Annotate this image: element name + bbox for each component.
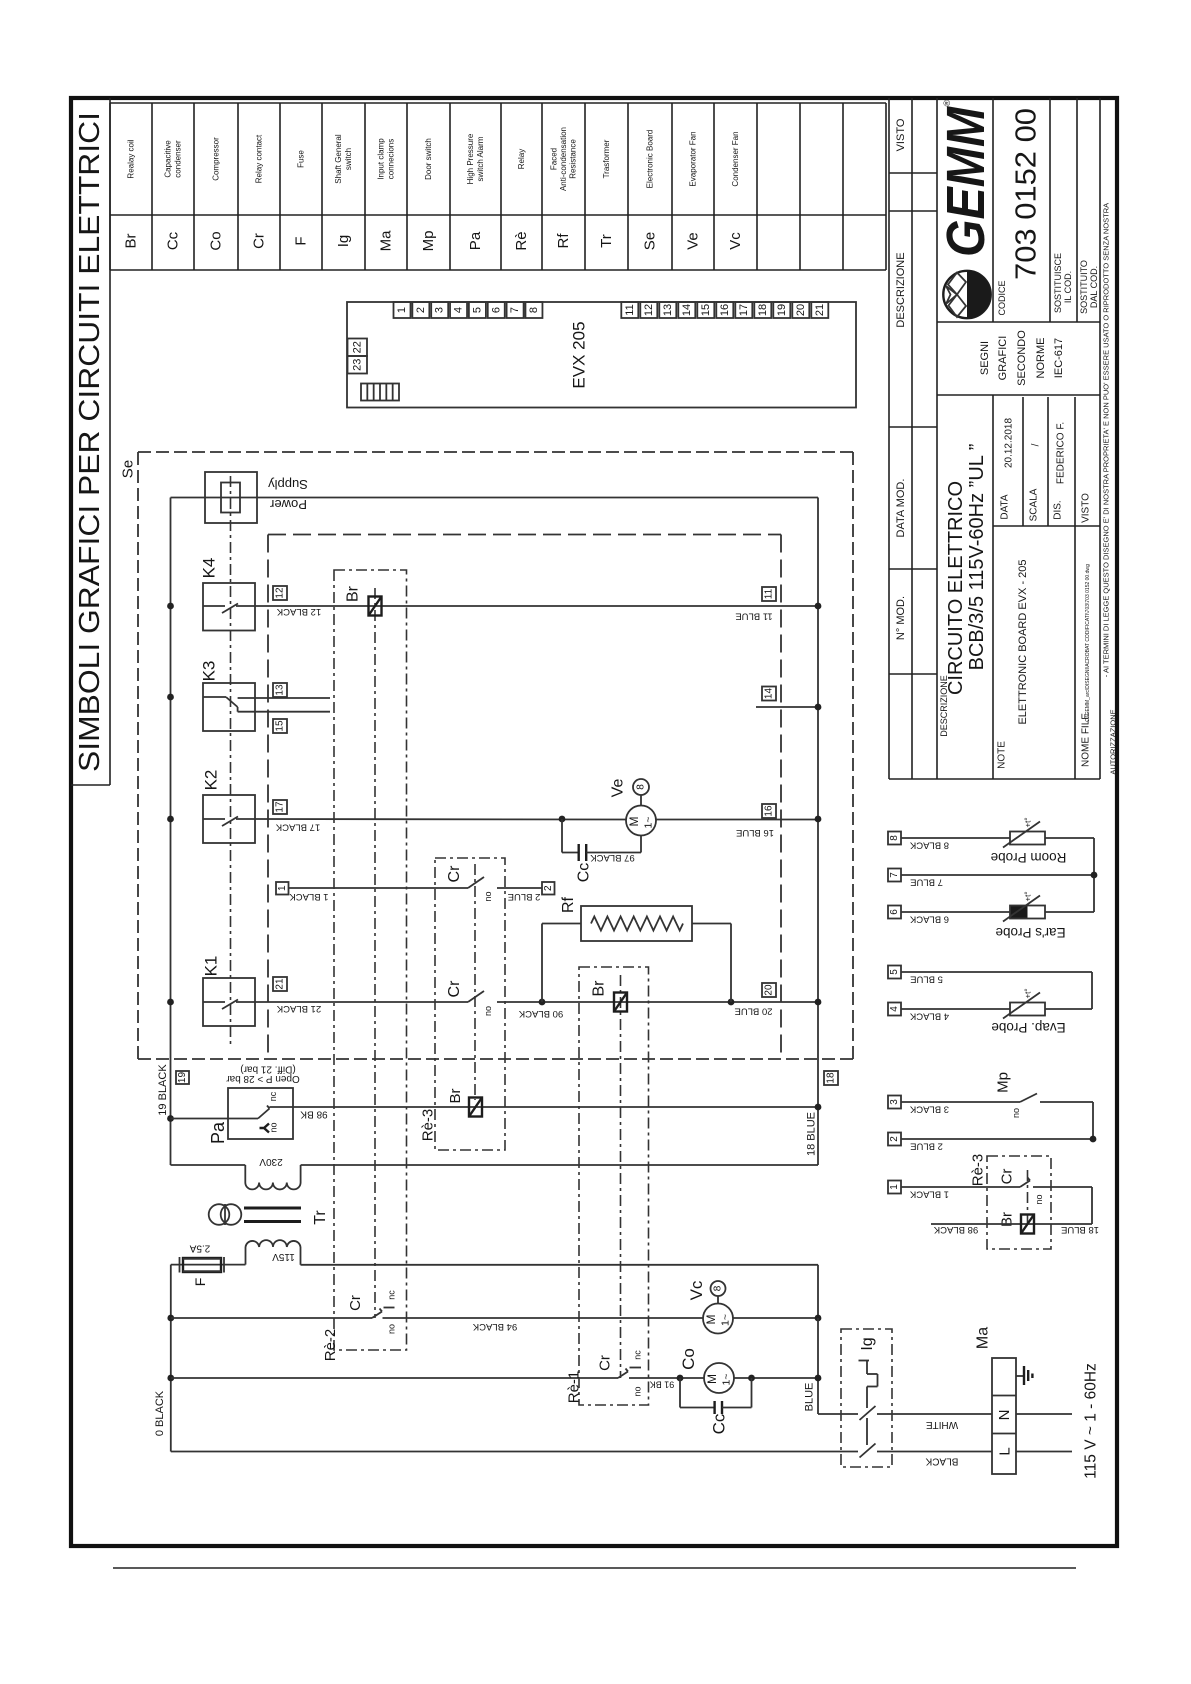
- pressure switch Pa: [171, 1064, 300, 1145]
- svg-text:14: 14: [764, 688, 775, 700]
- svg-text:Vc: Vc: [727, 232, 744, 250]
- legend entry Br: [123, 139, 140, 248]
- svg-text:18: 18: [757, 304, 769, 316]
- svg-text:16 BLUE: 16 BLUE: [736, 827, 774, 838]
- junction: [728, 999, 735, 1006]
- svg-text:Pa: Pa: [208, 1121, 228, 1144]
- svg-text:Mp: Mp: [995, 1072, 1012, 1093]
- relay contact Cr (on 90 BLACK line): [446, 980, 493, 1016]
- svg-text:Ve: Ve: [610, 779, 627, 798]
- svg-text:Compressor: Compressor: [212, 137, 221, 181]
- svg-text:no: no: [633, 1386, 643, 1396]
- junction: [815, 704, 822, 711]
- wire to pin 15: [238, 711, 330, 713]
- legend entry Tr: [598, 139, 615, 248]
- svg-text:13: 13: [275, 684, 286, 696]
- svg-text:BLUE: BLUE: [804, 1383, 816, 1412]
- thermistor Room Probe: [991, 817, 1094, 912]
- thermistor Ear's Probe: [995, 891, 1094, 940]
- svg-text:condenser: condenser: [173, 140, 182, 178]
- svg-text:connecions: connecions: [386, 139, 395, 179]
- pin 1: [888, 1181, 901, 1194]
- electronic board Se EVX 205: [347, 302, 856, 408]
- svg-text:3 BLACK: 3 BLACK: [909, 1104, 949, 1115]
- svg-text:nc: nc: [387, 1290, 397, 1300]
- wire Vc to bus: [733, 1317, 818, 1319]
- wire BLACK (L): [171, 1452, 992, 1467]
- wire 19 BLACK label: [157, 1064, 169, 1116]
- svg-text:Se: Se: [120, 460, 137, 478]
- svg-text:no: no: [1034, 1194, 1044, 1204]
- svg-text:2: 2: [889, 1136, 900, 1142]
- relay contact K3: [200, 661, 256, 731]
- border frame: [71, 98, 1117, 1546]
- svg-text:Cr: Cr: [347, 1295, 364, 1311]
- resistor Rf (anti-condensation): [542, 896, 731, 1002]
- svg-text:SOSTITUITO: SOSTITUITO: [1079, 260, 1089, 314]
- wire N out: [1016, 1413, 1072, 1415]
- svg-text:/: /: [1031, 443, 1042, 446]
- pin 13: [273, 683, 287, 697]
- svg-text:8: 8: [713, 1285, 724, 1291]
- svg-text:115 V ~ 1 - 60Hz: 115 V ~ 1 - 60Hz: [1083, 1363, 1100, 1479]
- link line Re-3 right: [1027, 1170, 1029, 1224]
- svg-text:Co: Co: [208, 231, 225, 250]
- wire Co to bus: [734, 1377, 818, 1379]
- svg-text:15: 15: [275, 720, 286, 732]
- legend entry Cr: [251, 134, 268, 249]
- wire 91 BK: [629, 1378, 704, 1390]
- wire 11 BLUE label: [735, 611, 772, 622]
- svg-text:1: 1: [889, 1184, 900, 1190]
- svg-text:Electronic Board: Electronic Board: [646, 130, 655, 189]
- pin 18: [824, 1071, 838, 1085]
- svg-text:15: 15: [700, 304, 712, 316]
- svg-text:5 BLUE: 5 BLUE: [910, 974, 943, 985]
- junction: [167, 1375, 174, 1382]
- relay contact Cr (Re-2, condenser fan): [171, 1290, 397, 1334]
- svg-text:91 BK: 91 BK: [650, 1380, 675, 1390]
- svg-text:N: N: [996, 1410, 1013, 1421]
- svg-text:Evaporator Fan: Evaporator Fan: [689, 131, 698, 186]
- junction: [815, 1315, 822, 1322]
- coil link dash line: [230, 476, 232, 1045]
- svg-text:Relay: Relay: [517, 149, 526, 169]
- legend entry F: [293, 150, 310, 246]
- svg-text:12 BLACK: 12 BLACK: [276, 606, 321, 617]
- svg-text:703 0152 00: 703 0152 00: [1011, 108, 1043, 280]
- svg-text:L: L: [997, 1447, 1014, 1455]
- svg-text:1~: 1~: [721, 1374, 733, 1386]
- wire 230V primary feed: [171, 1156, 283, 1183]
- svg-text:IEC-617: IEC-617: [1053, 338, 1065, 378]
- board pin 15: [697, 302, 714, 318]
- svg-text:Faced: Faced: [549, 148, 558, 170]
- logo GEMM: [936, 99, 996, 257]
- svg-text:16: 16: [764, 805, 775, 817]
- svg-text:- AI TERMINI DI LEGGE QUE: - AI TERMINI DI LEGGE QUESTO DISEGNO E' …: [1102, 203, 1111, 677]
- svg-text:EVX 205: EVX 205: [570, 321, 589, 388]
- svg-text:19 BLACK: 19 BLACK: [157, 1064, 169, 1116]
- svg-text:NOTE: NOTE: [997, 741, 1008, 769]
- svg-text:Mp: Mp: [420, 231, 437, 252]
- pin 21: [273, 977, 287, 991]
- svg-text:SIMBOLI GRAFICI PER CIRCUITI: SIMBOLI GRAFICI PER CIRCUITI ELETTRICI: [74, 112, 106, 772]
- svg-text:Br: Br: [447, 1088, 464, 1103]
- board pin 8: [525, 302, 542, 318]
- svg-text:Realay coil: Realay coil: [127, 139, 136, 178]
- wire 18 BLUE label: [806, 1112, 818, 1156]
- svg-text:Br: Br: [591, 980, 608, 997]
- svg-text:CIRCUITO ELETTRICO: CIRCUITO ELETTRICO: [945, 481, 967, 695]
- svg-text:Door switch: Door switch: [424, 138, 433, 180]
- node Re-2 label: [322, 1329, 339, 1362]
- svg-text:FEDERICO F.: FEDERICO F.: [1056, 422, 1067, 484]
- board pin 5: [469, 302, 486, 318]
- svg-text:20.12.2018: 20.12.2018: [1004, 418, 1015, 468]
- svg-text:Cr: Cr: [597, 1355, 614, 1371]
- svg-text:WHITE: WHITE: [926, 1419, 959, 1430]
- board pin 12: [640, 302, 657, 318]
- pin 19: [176, 1071, 189, 1084]
- junction: [815, 603, 822, 610]
- svg-text:1 BLACK: 1 BLACK: [909, 1189, 949, 1200]
- door switch Mp: [995, 1072, 1094, 1139]
- legal text: [1102, 203, 1118, 775]
- relay Br / Re-1 boundary: [579, 967, 649, 1405]
- svg-text:Rè-3: Rè-3: [420, 1109, 437, 1142]
- wire 2 BLUE: [497, 888, 542, 902]
- svg-text:switch Alarm: switch Alarm: [476, 136, 485, 181]
- svg-text:97 BLACK: 97 BLACK: [590, 852, 635, 863]
- svg-text:7: 7: [509, 307, 521, 313]
- legend entry Co: [208, 137, 225, 251]
- wire secondary to right bus: [301, 1247, 819, 1318]
- wire 3 BLACK: [901, 1102, 1020, 1115]
- svg-text:no: no: [483, 891, 493, 901]
- svg-text:Shaft General: Shaft General: [334, 134, 343, 184]
- svg-text:GEMM: GEMM: [936, 106, 996, 257]
- svg-text:Fuse: Fuse: [297, 150, 306, 168]
- legend entry Ma: [377, 138, 396, 252]
- svg-text:7: 7: [889, 872, 900, 878]
- note: [997, 559, 1030, 768]
- junction: [559, 816, 566, 823]
- junction: [1090, 1136, 1097, 1143]
- pin 6: [888, 906, 901, 919]
- legend entry Ig: [334, 134, 353, 247]
- svg-text:SCALA: SCALA: [1029, 488, 1040, 521]
- relay contact K2: [202, 770, 256, 843]
- svg-text:21 BLACK: 21 BLACK: [276, 1003, 321, 1014]
- board pin 11: [621, 302, 638, 318]
- svg-text:M: M: [627, 817, 641, 827]
- svg-text:SECONDO: SECONDO: [1016, 330, 1028, 386]
- board pin 13: [659, 302, 676, 318]
- svg-text:20 BLUE: 20 BLUE: [734, 1006, 772, 1017]
- svg-text:6 BLACK: 6 BLACK: [909, 914, 949, 925]
- svg-text:F: F: [293, 236, 310, 245]
- wire left bus lower: [170, 1265, 172, 1452]
- svg-text:3: 3: [434, 307, 446, 313]
- svg-text:DAL COD.: DAL COD.: [1089, 266, 1099, 308]
- svg-text:no: no: [269, 1122, 279, 1132]
- svg-text:2: 2: [415, 307, 427, 313]
- transformer Tr: [209, 1183, 329, 1263]
- wire supply top: [171, 498, 819, 1166]
- sheet title SIMBOLI GRAFICI PER CIRCUITI ELETTRICI: [71, 98, 110, 785]
- title block grid: [937, 98, 1100, 779]
- pin 2: [888, 1133, 901, 1146]
- svg-text:Cc: Cc: [576, 863, 593, 883]
- svg-text:no: no: [387, 1324, 397, 1334]
- legend entry Pa: [466, 133, 485, 250]
- svg-text:(Diff. 21 bar): (Diff. 21 bar): [240, 1064, 295, 1075]
- relay Re-3 boundary (Cr contacts): [435, 858, 505, 1150]
- board pin 18: [754, 302, 771, 318]
- pin 15: [273, 719, 287, 733]
- capacitor Cc (evaporator fan): [562, 819, 641, 882]
- svg-text:Resistance: Resistance: [569, 139, 578, 179]
- svg-text:nc: nc: [268, 1091, 278, 1101]
- svg-text:18: 18: [826, 1072, 837, 1084]
- relay coil Br (K4 line): [345, 585, 382, 615]
- junction: [815, 1104, 822, 1111]
- svg-text:Ig: Ig: [335, 235, 352, 248]
- svg-text:Rè: Rè: [513, 231, 530, 250]
- pin 7: [888, 869, 901, 882]
- link line Br coil to Re-2 contact: [374, 588, 376, 1318]
- wire 5 BLUE: [901, 972, 1092, 1009]
- board pin 4: [450, 302, 467, 318]
- footer rule: [113, 1567, 1076, 1569]
- motor Vc condenser fan: [687, 1280, 733, 1333]
- board pin 21: [811, 302, 828, 318]
- capacitor Cc (compressor): [680, 1378, 752, 1434]
- svg-text:Power: Power: [269, 497, 307, 512]
- svg-text:GRAFICI: GRAFICI: [997, 336, 1009, 381]
- junction: [815, 1375, 822, 1382]
- relay Br / Re-2 boundary: [334, 570, 407, 1350]
- svg-text:20: 20: [795, 304, 807, 316]
- wire 6 BLACK: [901, 912, 1010, 925]
- svg-text:22: 22: [351, 341, 363, 353]
- svg-text:12: 12: [275, 587, 286, 599]
- general switch Ig: [841, 1329, 892, 1467]
- svg-text:Room Probe: Room Probe: [991, 850, 1067, 865]
- svg-text:ELETTRONIC BOARD EVX - 205: ELETTRONIC BOARD EVX - 205: [1017, 559, 1029, 724]
- svg-text:Vc: Vc: [687, 1280, 706, 1300]
- board pin 3: [431, 302, 448, 318]
- wire WHITE (N): [818, 1414, 992, 1430]
- board connector: [361, 384, 399, 401]
- board pin 16: [716, 302, 733, 318]
- svg-text:Rè-3: Rè-3: [970, 1154, 987, 1187]
- svg-text:14: 14: [681, 304, 693, 316]
- svg-text:Ig: Ig: [859, 1337, 876, 1350]
- legend entry Cc: [164, 140, 183, 250]
- codice 703 0152 00: [997, 108, 1043, 316]
- svg-text:90 BLACK: 90 BLACK: [518, 1008, 563, 1019]
- wire 17 BLACK: [255, 819, 626, 833]
- motor Ve evaporator fan: [610, 779, 657, 836]
- svg-text:®: ®: [942, 99, 952, 106]
- junction: [167, 603, 174, 610]
- relay coil Br (90 BLACK line): [591, 980, 628, 1012]
- junction: [677, 1375, 684, 1382]
- junction: [167, 1315, 174, 1322]
- pin 14: [762, 687, 776, 701]
- board pin 14: [678, 302, 695, 318]
- motor Co compressor: [679, 1348, 734, 1393]
- svg-text:1~: 1~: [643, 817, 655, 829]
- svg-text:12: 12: [643, 304, 655, 316]
- svg-text:18 BLUE: 18 BLUE: [1061, 1224, 1099, 1235]
- svg-text:4: 4: [453, 307, 465, 313]
- svg-text:Evap. Probe: Evap. Probe: [991, 1020, 1065, 1035]
- junction: [815, 999, 822, 1006]
- relay contact Cr (Re-1, compressor): [171, 1350, 643, 1397]
- svg-text:Co: Co: [679, 1348, 698, 1370]
- svg-text:2: 2: [543, 885, 554, 891]
- legend entry Rè: [513, 149, 530, 251]
- wire 21 BLACK: [255, 1002, 468, 1014]
- relay contact Cr (door relay, Re-3 group): [446, 865, 493, 902]
- svg-text:4: 4: [889, 1006, 900, 1012]
- svg-text:no: no: [1011, 1108, 1021, 1118]
- svg-text:1 BLACK: 1 BLACK: [289, 891, 329, 902]
- sostituito: [1079, 260, 1099, 314]
- wire 7 BLUE: [901, 875, 1094, 888]
- svg-text:Anti-condensation: Anti-condensation: [559, 127, 568, 191]
- svg-text:N° MOD.: N° MOD.: [895, 596, 907, 640]
- svg-text:Capacitive: Capacitive: [164, 140, 173, 178]
- svg-text:1~: 1~: [720, 1314, 732, 1326]
- junction: [1091, 872, 1098, 879]
- svg-text:Supply: Supply: [268, 477, 308, 492]
- svg-text:13: 13: [662, 304, 674, 316]
- pin 17: [273, 800, 287, 814]
- board pin 23: [348, 356, 368, 374]
- junction: [167, 816, 174, 823]
- svg-text:19: 19: [776, 304, 788, 316]
- junction: [167, 694, 174, 701]
- svg-text:Rf: Rf: [560, 896, 577, 913]
- svg-text:Rè-2: Rè-2: [322, 1329, 339, 1362]
- svg-text:IL COD.: IL COD.: [1063, 271, 1073, 303]
- wire 16 BLUE: [656, 820, 818, 839]
- node Re-3 label: [420, 1109, 437, 1142]
- pin 12: [273, 586, 287, 600]
- relay contact K1: [202, 956, 256, 1026]
- svg-text:Tr: Tr: [598, 234, 615, 248]
- svg-text:Br: Br: [345, 585, 362, 602]
- logo sphere: [943, 271, 990, 318]
- svg-text:nc: nc: [633, 1350, 643, 1360]
- supply label 115V 60Hz: [1083, 1363, 1100, 1479]
- wire 1 BLACK: [289, 888, 469, 902]
- wire 20 BLUE label: [734, 1006, 772, 1017]
- svg-text:Br: Br: [123, 233, 140, 248]
- svg-text:20: 20: [764, 984, 775, 996]
- svg-text:BCB/3/5 115V-60Hz ”UL ”: BCB/3/5 115V-60Hz ”UL ”: [966, 444, 988, 671]
- svg-text:94 BLACK: 94 BLACK: [472, 1321, 517, 1332]
- board pin 19: [773, 302, 790, 318]
- fuse F 2.5A: [171, 1243, 246, 1287]
- svg-text:NORME: NORME: [1035, 338, 1047, 379]
- svg-text:6: 6: [490, 307, 502, 313]
- wire primary to bus: [301, 1165, 818, 1183]
- wire 2 BLUE (right): [901, 1139, 1093, 1152]
- svg-text:K4: K4: [200, 558, 219, 579]
- board pin 1: [394, 302, 411, 318]
- ground: [1016, 1366, 1032, 1385]
- svg-text:DIS.: DIS.: [1053, 500, 1064, 519]
- svg-text:Pa: Pa: [467, 231, 484, 250]
- wire 12 BLACK: [255, 606, 818, 617]
- svg-text:AUTORIZZAZIONE: AUTORIZZAZIONE: [1109, 709, 1118, 774]
- svg-text:11: 11: [624, 304, 636, 315]
- svg-text:8: 8: [889, 835, 900, 841]
- wire BLUE label: [804, 1383, 816, 1412]
- svg-text:Ma: Ma: [975, 1327, 992, 1349]
- svg-text:M: M: [704, 1315, 718, 1325]
- svg-text:+t°: +t°: [1024, 817, 1033, 827]
- svg-text:Cr: Cr: [446, 980, 463, 998]
- svg-text:Relay contact: Relay contact: [255, 134, 264, 183]
- relay contact Cr (Re-3 right): [999, 1169, 1093, 1224]
- relay coil Br (Re-3, on 98 BK line): [447, 1088, 482, 1116]
- svg-text:DATA MOD.: DATA MOD.: [895, 479, 907, 538]
- descrizione title: [939, 444, 988, 737]
- svg-text:K2: K2: [202, 770, 221, 791]
- board boundary Se (dash region): [138, 452, 853, 1059]
- svg-text:Rf: Rf: [555, 233, 572, 249]
- svg-text:Input clamp: Input clamp: [377, 138, 386, 180]
- svg-text:VISTO: VISTO: [1081, 493, 1092, 523]
- thermistor Evap. Probe: [991, 988, 1092, 1035]
- svg-text:switch: switch: [344, 148, 353, 170]
- svg-text:High Pressure: High Pressure: [466, 133, 475, 184]
- board pin 2: [412, 302, 429, 318]
- svg-text:4 BLACK: 4 BLACK: [909, 1011, 949, 1022]
- wire 94 BLACK: [383, 1318, 704, 1332]
- relay Re-3 boundary (right): [970, 1154, 1052, 1249]
- nome file: [1081, 564, 1092, 767]
- svg-text:Ve: Ve: [685, 232, 702, 250]
- wire 8 BLACK: [901, 838, 1010, 851]
- pin 11: [762, 587, 776, 601]
- svg-text:5: 5: [889, 969, 900, 975]
- svg-text:Cr: Cr: [446, 865, 463, 883]
- board pin 20: [792, 302, 809, 318]
- wire to pin 13: [238, 697, 330, 699]
- svg-text:16: 16: [719, 304, 731, 316]
- svg-text:Trasformer: Trasformer: [602, 139, 611, 178]
- junction: [167, 999, 174, 1006]
- junction: [748, 1375, 755, 1382]
- svg-text:98 BLACK: 98 BLACK: [933, 1224, 978, 1235]
- segni grafici block: [979, 330, 1065, 386]
- power supply block: [205, 472, 308, 523]
- svg-text:11: 11: [764, 588, 775, 599]
- svg-text:Cr: Cr: [999, 1169, 1016, 1185]
- wire L out: [1016, 1451, 1072, 1453]
- wire left supply bus: [170, 498, 172, 1166]
- svg-text:17 BLACK: 17 BLACK: [275, 822, 320, 833]
- svg-text:K1: K1: [202, 956, 221, 977]
- pin 8: [888, 832, 901, 845]
